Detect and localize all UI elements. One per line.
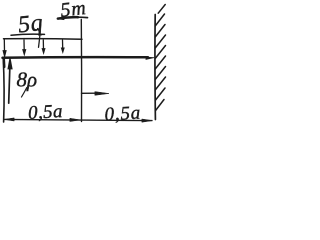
svg-text:0,5a: 0,5a [104, 103, 142, 126]
beam end arrowhead [146, 57, 154, 59]
force arrow 8p shaft [9, 69, 10, 104]
load arrow 1 [3, 39, 5, 52]
dimension line bottom [4, 119, 152, 120]
underline 5q [11, 34, 45, 35]
q tail stroke [38, 29, 40, 48]
load arrow 2 [23, 40, 25, 51]
wall line [154, 15, 156, 120]
rho tail stroke [22, 88, 27, 98]
dim arrow left (pointing left) [4, 118, 14, 121]
moment underline arrow 5m [58, 17, 78, 18]
load arrow 3 [42, 40, 44, 50]
horizontal arrow at mid section [82, 92, 97, 94]
left edge heavy upper segment [3, 59, 6, 68]
load arrow 4 [62, 40, 64, 49]
wall hatching [158, 5, 165, 14]
left edge line [2, 58, 5, 123]
force arrow 8p head [8, 57, 12, 69]
dim arrow mid (pointing right) [70, 118, 81, 121]
node line (mid vertical at 0.5a) [80, 20, 82, 122]
distributed load line [4, 38, 83, 41]
beam [3, 56, 149, 59]
svg-text:0,5a: 0,5a [27, 101, 63, 124]
dim arrow right (pointing right) [142, 119, 153, 122]
